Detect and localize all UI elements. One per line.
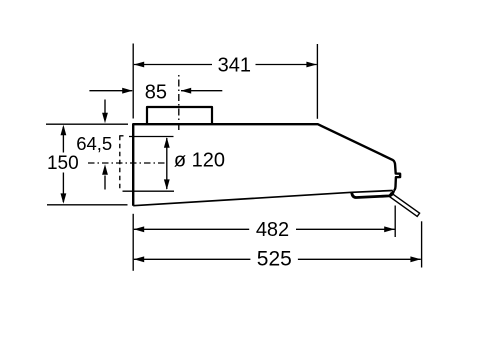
svg-text:525: 525 [257,248,292,271]
handle rod [389,193,420,217]
horizontal centerline [88,162,167,164]
extension line bottom (y=205) [47,204,128,206]
dashed hidden line [119,136,121,191]
dimension o120 double arrow [166,138,168,189]
64,5 down arrow [104,100,106,114]
vertical centerline [178,75,180,131]
filter lip [352,191,394,198]
svg-text:482: 482 [256,219,289,241]
extension line lower-left (x=133) [132,214,134,271]
dimension 525 line [134,258,251,260]
dashed line top tick [119,135,123,137]
upper duct extension line [129,136,174,138]
dashed line bottom tick / lower duct extension [123,190,175,192]
dimension 482 line [134,228,249,230]
extension line 525 right (x=422) [421,221,423,267]
extension line 482 right (x=395) [394,206,396,238]
64,5 up arrow [104,176,106,190]
svg-text:85: 85 [145,82,167,104]
duct on top [147,107,212,124]
dimension 150 line [62,127,64,153]
extension line left (x=133) [132,44,134,119]
svg-text:341: 341 [218,55,251,77]
svg-text:64,5: 64,5 [76,133,112,154]
hood bottom edge [133,191,392,206]
svg-text:ø 120: ø 120 [174,150,225,172]
dimension 85 arrows [89,90,132,92]
extension line right (x=317) [316,44,318,119]
dimension 341 line [134,64,212,66]
hood body outline [133,124,400,206]
extension line top (y=124) [46,123,128,125]
svg-text:150: 150 [47,153,79,174]
